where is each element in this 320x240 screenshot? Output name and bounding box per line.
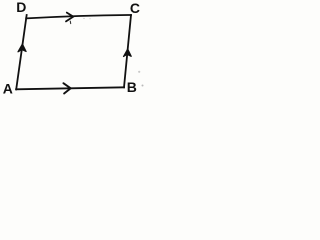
scan fuzz under top edge [83,18,84,19]
svg-text:D: D [16,0,26,15]
background [0,0,152,99]
svg-text:C: C [130,0,140,16]
svg-text:B: B [127,79,137,95]
side BC (right edge) [124,15,131,87]
side DC (top edge) [26,15,131,18]
arrow on AB (points right) [63,83,70,93]
side AB (bottom edge) [16,87,124,89]
side AD (left edge) [16,15,26,89]
scan speck right of B [142,85,144,87]
scan speck below top arrow [69,21,71,23]
arrow on BC (points up) [124,49,132,57]
scan speck inside right area [138,71,140,73]
arrow on AD (points up) [18,44,26,52]
arrow on DC (points right) [66,13,73,22]
svg-text:A: A [3,81,13,97]
